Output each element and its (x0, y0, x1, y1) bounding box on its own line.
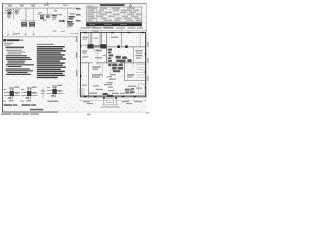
entry steps below (94, 48, 101, 50)
riser bottom rule (3, 36, 78, 39)
wire: feeder line to panels (21, 20, 37, 23)
disconnect switch S1 (15, 10, 18, 13)
wall: kitchen vertical (132, 47, 134, 63)
wire: drop to switch (12, 8, 14, 19)
T1 lower marks (7, 16, 11, 17)
kitchen fixtures cluster (108, 49, 113, 62)
sheet border left (1, 3, 4, 113)
detail 2: outlet mounting (20, 87, 37, 106)
entry middle band (94, 45, 101, 48)
column dot 2 (125, 45, 127, 48)
grid tag tick (46, 2, 49, 4)
panel A elevation (21, 22, 27, 26)
panel MDP lower (67, 21, 73, 23)
sheet border bottom (2, 111, 58, 114)
label: pole 3 (31, 5, 35, 6)
riser base tick 1 (7, 31, 9, 35)
label: service (63, 5, 67, 6)
wall: hall vertical (105, 33, 108, 63)
feeder note 2 (76, 14, 81, 15)
appliance cluster (116, 56, 132, 62)
schedule title (100, 4, 125, 6)
left dim text (76, 36, 77, 76)
riser diagram title (7, 39, 20, 41)
label: pole 1 (8, 5, 12, 6)
right end dash (146, 112, 149, 113)
sheet paper (2, 3, 147, 113)
closet lines (137, 64, 146, 77)
T1 side text (5, 10, 7, 11)
label: transformer (44, 4, 49, 5)
plan top dimension line (79, 29, 147, 31)
panel B elevation (29, 22, 35, 26)
hall wall below entry (97, 49, 99, 63)
label: meter (70, 13, 75, 14)
room label bed1 (92, 66, 100, 67)
transformer T1 cluster (7, 10, 11, 12)
column dot 1 (117, 45, 119, 48)
totals band specks (89, 23, 95, 26)
wall: bedroom vertical (87, 63, 90, 97)
wall: right closet (139, 33, 141, 47)
room label bed2 (127, 74, 134, 75)
shower box (139, 84, 146, 94)
page number (87, 114, 90, 116)
entry dark blob left (87, 44, 93, 48)
wire: conduit riser pair (24, 8, 26, 21)
wire: conduit riser 2 (32, 8, 34, 21)
stair marks bottom-left (79, 89, 84, 96)
scale note (30, 109, 43, 111)
schedule totals band upper (86, 22, 142, 23)
scale dash (70, 32, 79, 35)
pantry marks (135, 50, 142, 58)
door gaps in mid wall (93, 62, 97, 63)
label: pole 2 (20, 5, 24, 6)
detail 2b: pole stub (41, 87, 45, 98)
T1 tank (8, 12, 12, 15)
meter bank label (52, 15, 57, 16)
panel MDP (69, 16, 75, 18)
riser base tick 2 (12, 31, 14, 35)
table cell entries (88, 10, 142, 21)
porch post left (103, 97, 105, 99)
feeder note 3 (76, 20, 81, 21)
note under table (87, 27, 95, 28)
bottom dim text (83, 101, 142, 104)
door arc entry (94, 49, 99, 54)
transformer T2 cluster (40, 15, 44, 17)
door arc bed1 (96, 63, 101, 68)
left notes pre-heading (4, 45, 10, 46)
room label living (111, 37, 118, 38)
entry bay wall left pair (89, 33, 92, 45)
entry bay wall right pair (99, 33, 102, 45)
label above second bus (38, 12, 42, 13)
plan left dimension line (76, 31, 78, 98)
left notes heading (6, 47, 24, 48)
detail 3: junction box (47, 85, 63, 102)
wire: stub below meter (53, 31, 57, 32)
wire: panel feeder vertical (66, 8, 68, 28)
feeder note 1 (76, 8, 81, 9)
wall: bath vertical (123, 63, 126, 81)
right dim text (147, 42, 148, 81)
wire: secondary bus (37, 13, 61, 16)
entry label (94, 38, 99, 39)
riser base tick 3 (24, 31, 26, 35)
label above entry wall (93, 31, 98, 32)
label under T2 (43, 20, 48, 21)
dimension ticks top (80, 29, 146, 31)
note above table (87, 6, 93, 7)
wall: living divider (120, 33, 123, 47)
revision mark (129, 4, 132, 6)
title sub-note (4, 43, 14, 44)
misc annotation smudges in plan (82, 50, 142, 94)
left notes text lower (6, 55, 34, 75)
room label dining (83, 37, 88, 38)
T2 tank (40, 17, 44, 19)
wall: living south (106, 46, 146, 49)
sheet border right (145, 3, 148, 98)
porch door dark (107, 95, 113, 97)
riser diagram title mark (3, 39, 6, 41)
bed1 notes (92, 74, 102, 77)
table row lines (86, 9, 142, 21)
drawing stamp text (1, 113, 11, 115)
kitchen notes (82, 50, 87, 57)
riser base tick 4 (32, 31, 34, 35)
window ticks on walls (80, 32, 146, 97)
bath2 fixture marks (125, 88, 135, 93)
wall: hall right vertical (101, 63, 103, 78)
porch steps (102, 104, 118, 106)
door arc bed2 (129, 63, 134, 68)
feeder arrow (59, 20, 66, 23)
plan right dimension line (147, 33, 149, 95)
stub below cluster 4 (61, 31, 65, 32)
wire: main service bus (4, 7, 78, 10)
bath fixtures cluster (108, 64, 123, 73)
wire: entry side wall (87, 33, 89, 44)
dark mark above door (103, 93, 108, 95)
wall: mid horizontal (81, 62, 146, 65)
plan top dimension text (81, 27, 144, 28)
wall: hall2 vertical (110, 63, 112, 80)
switch S2 (46, 15, 49, 17)
table column lines (92, 7, 138, 22)
entry dark blob right (100, 44, 106, 48)
wall: bath south (124, 79, 146, 82)
sheet border top (2, 2, 147, 5)
ground stub (59, 14, 62, 15)
right notes heading (37, 44, 54, 45)
bottom dim ticks (80, 99, 146, 101)
hall label (83, 45, 87, 46)
bottom dimension line (79, 99, 147, 101)
porch post right (115, 97, 117, 99)
panel schedule table frame (86, 7, 142, 26)
bottom wall double line (81, 94, 146, 97)
right notes text (37, 46, 66, 78)
wire: service drop (46, 8, 48, 15)
node tick (18, 8, 20, 10)
detail 1: conduit bracket (3, 87, 20, 106)
left notes text upper (6, 50, 26, 55)
porch landing box (106, 99, 113, 103)
label under bus (15, 33, 21, 34)
table header text (88, 8, 97, 9)
schedule totals band dark (86, 23, 142, 26)
exterior wall outline (81, 32, 146, 96)
